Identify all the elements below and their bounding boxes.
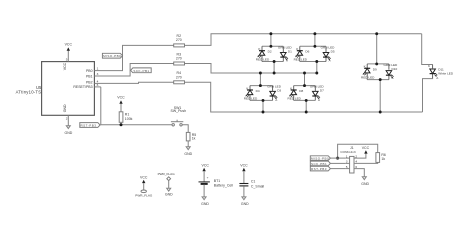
svg-text:VCC: VCC (117, 96, 125, 100)
svg-text:SCK-PB1: SCK-PB1 (311, 162, 327, 166)
svg-text:RESET/PB3: RESET/PB3 (73, 85, 92, 89)
svg-text:3: 3 (97, 72, 99, 76)
net label MISO-PB0 at J1 (310, 156, 345, 161)
svg-text:D6: D6 (305, 50, 309, 54)
net label RST-PB3 at J1 (310, 166, 345, 171)
svg-text:D10: D10 (392, 67, 398, 71)
svg-text:GND: GND (201, 202, 209, 206)
svg-text:A: A (286, 59, 289, 63)
svg-text:VCC: VCC (240, 164, 248, 168)
LED pair cell 4: D8 red / D7 green (287, 85, 324, 102)
svg-text:270: 270 (176, 75, 182, 79)
svg-text:6: 6 (97, 83, 99, 87)
svg-text:SW_Push: SW_Push (171, 109, 187, 113)
svg-text:VCC: VCC (362, 146, 370, 150)
capacitor C1 C_Small (239, 164, 264, 207)
svg-text:5: 5 (346, 165, 348, 169)
svg-text:D7: D7 (320, 89, 324, 93)
ground symbol below R5 (184, 147, 192, 156)
svg-text:D5: D5 (331, 49, 335, 53)
svg-text:C_Small: C_Small (251, 184, 264, 188)
svg-text:CONN-2x3: CONN-2x3 (340, 150, 355, 154)
svg-text:100k: 100k (125, 117, 133, 121)
power flag PWR_FLAG with ground (158, 172, 176, 196)
svg-text:RST-PB3: RST-PB3 (311, 167, 327, 171)
net label MISO-PB0 (102, 53, 122, 58)
svg-text:BT1: BT1 (214, 179, 220, 183)
wire R4 to net C (185, 82, 423, 112)
wire PB0 to R2 (101, 45, 174, 70)
svg-text:1k: 1k (381, 157, 385, 161)
svg-text:D8: D8 (299, 89, 303, 93)
svg-text:3: 3 (346, 160, 348, 164)
net label SCK-PB1 (131, 68, 152, 73)
battery BT1 Battery_Cell (199, 164, 234, 207)
svg-text:C1: C1 (251, 180, 256, 184)
svg-text:PB1: PB1 (86, 74, 93, 78)
wire SW1 to R5 (182, 125, 188, 133)
node junction R1/reset net (120, 123, 123, 126)
net label SCK-PB1 at J1 (310, 161, 345, 166)
wire cell4 bottom stub (305, 100, 307, 112)
op-amp U1 body (microcontroller ATtiny10-TS) (16, 62, 95, 116)
ground symbol below U1 (65, 126, 73, 135)
power symbol VCC at J1 (362, 146, 370, 154)
wire cell3 bottom stub (262, 100, 264, 112)
svg-text:MISO-PB0: MISO-PB0 (103, 54, 121, 58)
svg-text:MISO-PB0: MISO-PB0 (311, 157, 329, 161)
svg-text:D4: D4 (256, 89, 260, 93)
pin 2 of J1 to VCC (354, 153, 366, 158)
pin 6 of J1 to ground (354, 165, 364, 177)
svg-text:A: A (392, 76, 395, 80)
power symbol VCC with PWR_FLAG pair (135, 175, 153, 197)
svg-text:6: 6 (355, 165, 357, 169)
svg-text:1: 1 (97, 67, 99, 71)
svg-text:RED LED: RED LED (256, 57, 270, 61)
wire cell2 bottom stub (316, 62, 318, 74)
wire cell1 top stub (270, 34, 272, 47)
LED pair cell 1: D2 red / D1 green (256, 45, 293, 62)
svg-text:VCC: VCC (140, 175, 148, 179)
svg-text:D2: D2 (268, 50, 272, 54)
node junctions on cell rails (259, 45, 382, 102)
connector J1 CONN-2x3 programming header (340, 146, 355, 173)
svg-text:PWR_FLAG: PWR_FLAG (158, 172, 176, 176)
switch SW1 SW_Push (171, 106, 187, 126)
pin 4 of J1 to R6 (354, 160, 378, 164)
svg-text:270: 270 (176, 38, 182, 42)
svg-text:5: 5 (66, 57, 68, 61)
pin 6 RESET stub (94, 83, 100, 87)
svg-text:1k: 1k (192, 137, 196, 141)
pin 1 PB0 stub (94, 67, 100, 71)
svg-text:1: 1 (346, 154, 348, 158)
svg-text:VCC: VCC (65, 43, 73, 47)
svg-text:SCK-PB1: SCK-PB1 (133, 69, 149, 73)
diode D11 white LED branch (422, 34, 454, 112)
wire PB1 to R3 (101, 64, 174, 77)
pin 4 PB2 stub (94, 80, 100, 84)
wire RESET down to reset net (101, 87, 172, 125)
resistor R5 (186, 132, 196, 146)
wire R3 to net B (185, 64, 317, 74)
svg-text:D3: D3 (277, 89, 281, 93)
svg-text:RED LED: RED LED (361, 76, 375, 80)
pin 3 of J1 (345, 160, 349, 164)
resistor R6 (376, 153, 386, 163)
svg-text:GND: GND (165, 193, 173, 197)
svg-text:2: 2 (66, 117, 68, 121)
svg-text:RED LED: RED LED (287, 96, 301, 100)
svg-text:White LED: White LED (438, 72, 454, 76)
resistor R2 (174, 34, 185, 47)
svg-text:A: A (318, 98, 321, 102)
pin 3 PB1 stub (94, 72, 100, 76)
wire R2 to net A bus (185, 34, 422, 46)
svg-text:PWR_FLAG: PWR_FLAG (135, 193, 153, 197)
svg-text:GND: GND (63, 104, 67, 112)
node junctions on net C (262, 111, 382, 114)
svg-text:A: A (275, 98, 278, 102)
LED pair cell 2: D6 red / D5 green (294, 45, 336, 62)
LED pair cell 3: D4 red / D3 green (244, 85, 282, 102)
node junction MISO/R6 (336, 157, 339, 160)
svg-text:D9: D9 (373, 67, 377, 71)
svg-text:A: A (436, 76, 439, 80)
wire cell4 top stub (304, 73, 306, 86)
svg-text:+: + (207, 175, 209, 179)
power symbol VCC above U1 (65, 43, 73, 51)
pin 2 GND stub of U1 (66, 115, 69, 125)
pin 5 of J1 (345, 165, 349, 169)
power symbol VCC above R1 (117, 96, 125, 104)
svg-text:GND: GND (184, 152, 192, 156)
svg-text:RED LED: RED LED (294, 57, 308, 61)
ground symbol below J1 (361, 177, 369, 186)
svg-text:GND: GND (241, 202, 249, 206)
wire R6 top to MISO net (338, 144, 378, 158)
svg-text:A: A (329, 59, 332, 63)
wire cell5 bottom stub (379, 80, 381, 112)
svg-text:GND: GND (361, 182, 369, 186)
svg-text:D1: D1 (288, 49, 292, 53)
svg-text:PB0: PB0 (86, 69, 93, 73)
svg-text:RED LED: RED LED (244, 96, 258, 100)
node junctions on net A bus (269, 32, 378, 35)
wire cell3 top stub (259, 73, 261, 86)
svg-text:PB2: PB2 (86, 81, 93, 85)
wire cell5 top stub (376, 34, 378, 64)
LED pair cell 5: D9 red / D10 green (361, 63, 398, 80)
wire cell1 bottom stub (273, 62, 275, 74)
resistor R1 pull-up (119, 104, 132, 125)
svg-text:Battery_Cell: Battery_Cell (214, 183, 233, 187)
svg-text:RST-PB3: RST-PB3 (81, 124, 97, 128)
resistor R3 (174, 52, 185, 65)
pin 5 VCC stub of U1 (66, 51, 69, 62)
svg-text:ATtiny10-TS: ATtiny10-TS (16, 90, 42, 95)
svg-text:GND: GND (65, 131, 73, 135)
net label RST-PB3 (80, 123, 100, 128)
resistor R4 (174, 71, 185, 84)
wire cell2 top stub (314, 34, 316, 47)
svg-text:4: 4 (355, 160, 357, 164)
svg-text:270: 270 (176, 57, 182, 61)
node junctions on net B (259, 72, 318, 75)
svg-text:VCC: VCC (63, 62, 67, 70)
wire PB2 to R4 (101, 82, 174, 83)
pin 1 of J1 (345, 154, 349, 158)
svg-text:VCC: VCC (202, 164, 210, 168)
svg-text:2: 2 (355, 154, 357, 158)
